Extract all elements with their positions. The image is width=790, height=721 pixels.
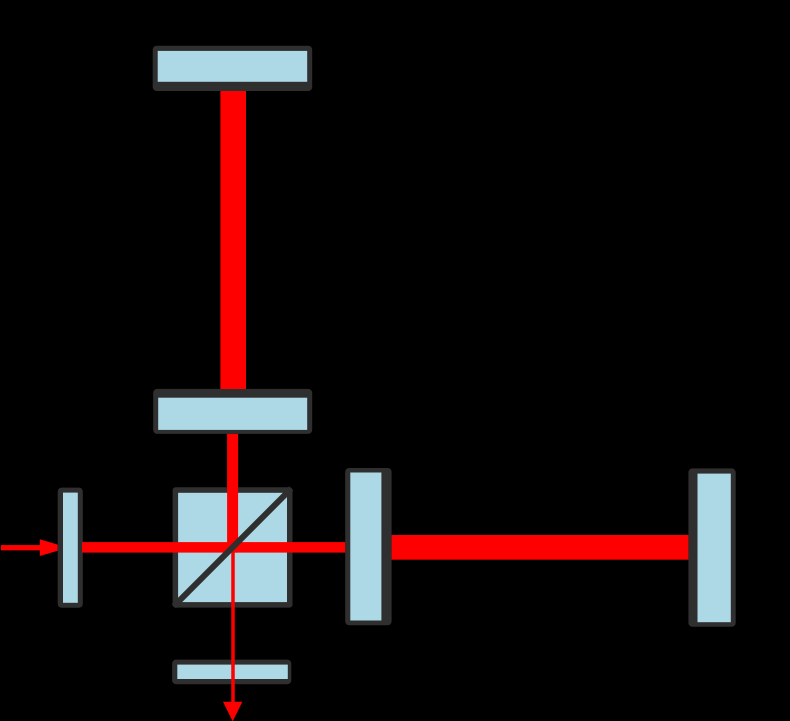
input mirror ITM-Y bbox=[153, 389, 312, 434]
output beam to photodetector (thin vertical) bbox=[231, 547, 235, 703]
end mirror ETM-X (far right) bbox=[688, 468, 735, 626]
output arrowhead bbox=[223, 702, 242, 721]
laser beam X-arm cavity (thick horizontal) bbox=[392, 535, 689, 560]
laser beam BS to ITM-Y (medium vertical) bbox=[227, 434, 238, 553]
laser beam Y-arm cavity (thick vertical) bbox=[220, 91, 246, 389]
beam splitter BS body bbox=[173, 487, 293, 607]
input arrow (laser input) bbox=[1, 539, 58, 556]
end mirror ETM-Y (top) bbox=[153, 46, 313, 91]
photodetector (bottom output optic) bbox=[172, 660, 291, 685]
power recycling mirror PRM (left thin element) bbox=[58, 488, 83, 608]
beam splitter diagonal bbox=[174, 489, 291, 607]
input mirror ITM-X bbox=[345, 468, 391, 625]
laser beam PRM to ITM-X through BS (medium horizontal) bbox=[82, 542, 345, 553]
